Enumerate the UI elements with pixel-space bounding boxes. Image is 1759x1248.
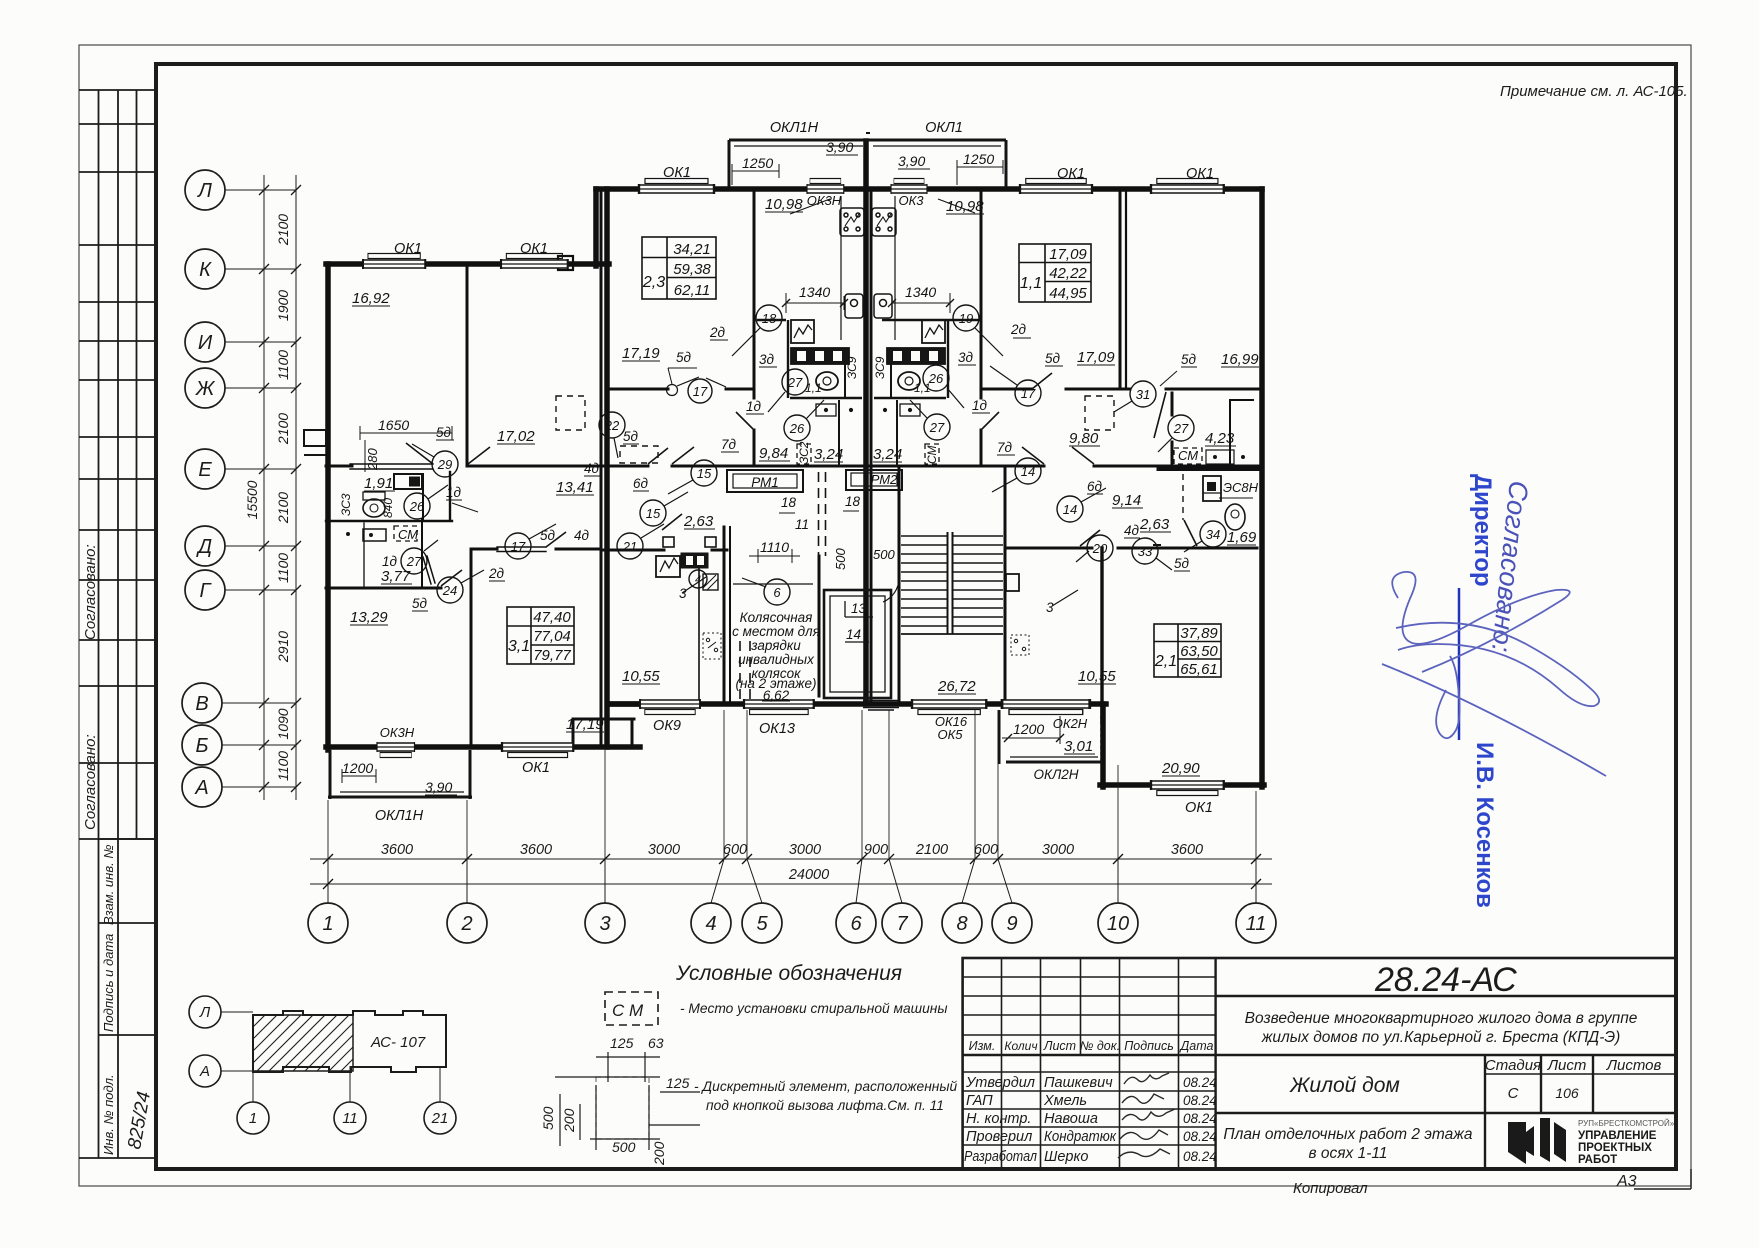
svg-text:24: 24: [442, 583, 457, 598]
svg-text:33: 33: [1138, 544, 1153, 559]
svg-text:21: 21: [622, 539, 637, 554]
svg-text:Копировал: Копировал: [1293, 1180, 1368, 1197]
svg-text:Согласовано:: Согласовано:: [82, 544, 99, 640]
svg-text:9,80: 9,80: [1069, 430, 1099, 447]
party wall center: [863, 141, 869, 704]
vestibule wall x819: [818, 556, 821, 696]
wall bottom left-section: [326, 744, 640, 750]
room area labels underlined: [350, 196, 1259, 777]
entrance dashed lines: [740, 472, 826, 702]
svg-text:ОК3Н: ОК3Н: [807, 193, 842, 208]
rotated small labels: [339, 356, 1259, 542]
left stamp sidebar table: [79, 90, 156, 1158]
svg-text:ОК1: ОК1: [522, 760, 550, 776]
svg-text:Взам. инв. №: Взам. инв. №: [101, 845, 116, 925]
svg-text:500: 500: [540, 1106, 556, 1130]
РМ1 box: [727, 470, 902, 492]
svg-text:А: А: [194, 777, 208, 799]
svg-text:3000: 3000: [648, 842, 680, 858]
left axis circles: [182, 170, 225, 807]
svg-text:840: 840: [381, 498, 395, 518]
svg-text:20: 20: [1092, 541, 1108, 556]
stairwell walls: [898, 466, 901, 704]
svg-text:Б: Б: [195, 735, 208, 757]
wall bottom right-section: [1100, 782, 1264, 788]
svg-text:Колясочная: Колясочная: [740, 610, 813, 625]
svg-text:СМ: СМ: [1178, 448, 1198, 463]
svg-text:42,22: 42,22: [1049, 265, 1087, 282]
svg-text:Н. контр.: Н. контр.: [966, 1111, 1031, 1127]
svg-text:6: 6: [773, 585, 781, 600]
svg-text:26: 26: [789, 421, 805, 436]
svg-text:47,40: 47,40: [533, 609, 571, 626]
svg-text:08.24: 08.24: [1183, 1129, 1217, 1144]
svg-text:зарядки: зарядки: [750, 638, 801, 653]
svg-text:инвалидных: инвалидных: [738, 652, 815, 667]
svg-text:Д: Д: [196, 536, 212, 558]
svg-text:Пашкевич: Пашкевич: [1044, 1075, 1113, 1091]
door leaves: [406, 373, 1197, 586]
svg-text:РМ1: РМ1: [751, 475, 779, 490]
svg-text:37,89: 37,89: [1180, 625, 1218, 642]
svg-text:Инв. № подл.: Инв. № подл.: [101, 1074, 116, 1155]
hall wall y550: [601, 549, 664, 552]
svg-text:Навоша: Навоша: [1044, 1111, 1098, 1127]
svg-text:И: И: [198, 332, 213, 354]
svg-text:РУП«БРЕСТКОМСТРОЙ»: РУП«БРЕСТКОМСТРОЙ»: [1578, 1119, 1675, 1128]
wall top middle: [596, 186, 1262, 192]
balcony bottom okl1n: [328, 750, 472, 799]
svg-text:ОК3: ОК3: [898, 193, 924, 208]
svg-text:2,1: 2,1: [1154, 653, 1177, 670]
svg-text:17,19: 17,19: [566, 716, 604, 733]
svg-text:Хмель: Хмель: [1043, 1093, 1087, 1109]
svg-text:ОК1: ОК1: [520, 241, 548, 257]
svg-text:ОК5: ОК5: [937, 727, 963, 742]
svg-text:Шерко: Шерко: [1044, 1149, 1088, 1165]
svg-text:2: 2: [460, 913, 472, 935]
svg-text:26: 26: [409, 499, 425, 514]
svg-text:3д: 3д: [759, 352, 775, 367]
svg-text:6д: 6д: [1087, 479, 1103, 494]
svg-text:500: 500: [833, 548, 848, 570]
svg-text:ЗС2: ЗС2: [797, 441, 811, 464]
svg-text:18: 18: [762, 311, 777, 326]
svg-text:6д: 6д: [633, 476, 649, 491]
left bath walls: [326, 520, 452, 522]
wall left of apt 2.1: [1100, 704, 1106, 787]
left axis leader lines + dim chain: [222, 175, 296, 800]
svg-text:ЗС3: ЗС3: [339, 493, 353, 516]
hall fixtures: washing machine, radiator block, hatched box: [656, 553, 813, 590]
svg-text:3,1: 3,1: [508, 638, 530, 655]
svg-text:РАБОТ: РАБОТ: [1578, 1154, 1617, 1166]
svg-text:- Дискретный элемент, располо: - Дискретный элемент, расположенный: [694, 1079, 958, 1094]
svg-text:19: 19: [959, 311, 973, 326]
svg-text:3: 3: [599, 913, 610, 935]
svg-text:5д: 5д: [1181, 352, 1197, 367]
svg-text:16,99: 16,99: [1221, 351, 1259, 368]
wall right outer: [1259, 189, 1265, 787]
svg-text:4,23: 4,23: [1205, 430, 1235, 447]
bottom axis circles: [308, 903, 1276, 943]
svg-text:Стадия: Стадия: [1485, 1057, 1541, 1074]
svg-text:14: 14: [846, 627, 861, 642]
svg-text:4д: 4д: [584, 461, 600, 476]
svg-text:Ж: Ж: [195, 378, 216, 400]
svg-text:77,04: 77,04: [533, 628, 571, 645]
left columns: [963, 958, 1216, 1169]
svg-text:3,24: 3,24: [814, 446, 843, 463]
stairs: [883, 532, 1003, 634]
bottom dim ticks: [323, 854, 1261, 889]
svg-text:26,72: 26,72: [937, 678, 976, 695]
svg-text:15500: 15500: [244, 480, 260, 519]
svg-text:34: 34: [1206, 527, 1220, 542]
sm room west wall x1172: [1171, 393, 1174, 415]
svg-text:3д: 3д: [958, 350, 974, 365]
svg-text:1100: 1100: [275, 350, 291, 380]
inner drawing frame: [156, 64, 1676, 1169]
koljasochnaja west wall (double): [723, 527, 726, 702]
svg-text:Дата: Дата: [1179, 1039, 1214, 1053]
svg-text:ОК1: ОК1: [1185, 800, 1213, 816]
svg-text:3: 3: [1046, 600, 1054, 615]
svg-text:3: 3: [679, 586, 687, 601]
svg-text:в осях 1-11: в осях 1-11: [1309, 1145, 1388, 1162]
svg-text:17,19: 17,19: [622, 345, 660, 362]
svg-text:15: 15: [646, 506, 661, 521]
svg-text:Жилой дом: Жилой дом: [1289, 1074, 1400, 1097]
svg-text:1,1: 1,1: [1020, 275, 1042, 292]
A3 corner line: [1634, 1188, 1691, 1190]
svg-text:2100: 2100: [915, 842, 948, 858]
svg-text:3,24: 3,24: [873, 446, 902, 463]
hatched part of mini building: [253, 1015, 353, 1071]
svg-text:3600: 3600: [381, 842, 413, 858]
svg-text:3,01: 3,01: [1064, 738, 1093, 755]
dim ticks left chain: [259, 185, 301, 792]
svg-text:9: 9: [1006, 913, 1017, 935]
svg-text:- Место установки стиральной: - Место установки стиральной машины: [680, 1001, 948, 1016]
svg-text:10,98: 10,98: [946, 198, 984, 215]
door labels: [382, 322, 1197, 642]
sm dashed boxes center: [797, 444, 939, 464]
right part: [1216, 996, 1676, 1169]
svg-text:А: А: [199, 1063, 210, 1080]
svg-text:600: 600: [974, 842, 998, 858]
svg-text:С: С: [1508, 1085, 1519, 1102]
svg-text:17,09: 17,09: [1049, 246, 1087, 263]
svg-text:1250: 1250: [742, 155, 773, 171]
logo: [1508, 1118, 1675, 1166]
svg-text:Л: Л: [196, 180, 212, 202]
lift shaft: [824, 590, 891, 698]
svg-text:2910: 2910: [275, 631, 291, 663]
mini building: [253, 1011, 446, 1072]
svg-text:08.24: 08.24: [1183, 1149, 1217, 1164]
G-axis wall y588: [326, 587, 441, 590]
interior walls: [326, 191, 1262, 747]
svg-text:8: 8: [956, 913, 967, 935]
kitchen wall right x981: [980, 191, 983, 398]
svg-text:№ док.: № док.: [1080, 1039, 1120, 1053]
svg-text:3600: 3600: [520, 842, 552, 858]
svg-text:44,95: 44,95: [1049, 285, 1087, 302]
svg-text:1200: 1200: [1013, 721, 1044, 737]
corridor verticals below bath: [838, 400, 840, 466]
kitchen stoves top: [840, 208, 896, 318]
svg-text:2100: 2100: [275, 413, 291, 445]
left dim texts (rotated): [244, 214, 291, 781]
svg-text:4д: 4д: [574, 528, 590, 543]
wall left outer: [325, 264, 331, 750]
svg-text:1: 1: [249, 1110, 257, 1127]
svg-text:ГАП: ГАП: [966, 1093, 993, 1109]
vent/els fixtures near stairs: [703, 574, 1029, 659]
svg-text:27: 27: [929, 420, 945, 435]
right section sm room fixtures: [1174, 448, 1253, 530]
svg-text:1100: 1100: [275, 553, 291, 583]
svg-text:2,3: 2,3: [642, 274, 665, 291]
svg-text:10,55: 10,55: [1078, 668, 1116, 685]
svg-text:11: 11: [342, 1110, 358, 1127]
svg-text:106: 106: [1555, 1085, 1579, 1101]
svg-text:125: 125: [666, 1075, 690, 1091]
underlines for door labels: [412, 338, 1197, 611]
svg-text:с местом для: с местом для: [732, 624, 820, 639]
svg-text:ОКЛ1Н: ОКЛ1Н: [375, 808, 424, 824]
svg-text:ОК1: ОК1: [394, 241, 422, 257]
wall top left-section: [326, 261, 609, 267]
svg-text:17,02: 17,02: [497, 428, 535, 445]
svg-text:79,77: 79,77: [533, 647, 571, 664]
svg-text:3000: 3000: [1042, 842, 1074, 858]
svg-text:17: 17: [511, 539, 526, 554]
svg-text:ОКЛ1Н: ОКЛ1Н: [770, 120, 819, 136]
svg-text:ОК2Н: ОК2Н: [1053, 716, 1088, 731]
svg-text:ОК3Н: ОК3Н: [380, 725, 415, 740]
svg-text:Листов: Листов: [1606, 1057, 1662, 1074]
svg-text:1090: 1090: [275, 708, 291, 739]
svg-text:9,84: 9,84: [759, 445, 788, 462]
window labels: [375, 120, 1214, 824]
bottom dim texts: [381, 842, 1203, 883]
svg-text:Возведение многоквартирного жи: Возведение многоквартирного жилого дома …: [1245, 1010, 1638, 1027]
wall between rooms 16,92/17,02: [466, 264, 469, 466]
door posts on hall wall: [663, 537, 716, 547]
signature scribbles in title block: [1118, 1073, 1175, 1158]
svg-text:65,61: 65,61: [1180, 661, 1218, 678]
svg-text:2100: 2100: [275, 214, 291, 246]
wall bottom middle: [609, 701, 1106, 707]
svg-text:СМ: СМ: [398, 527, 418, 542]
svg-text:15: 15: [697, 466, 712, 481]
svg-text:24000: 24000: [788, 867, 829, 883]
svg-text:08.24: 08.24: [1183, 1111, 1217, 1126]
exterior walls: [326, 141, 1264, 787]
niche in sm room: [1229, 400, 1231, 464]
svg-text:ОК1: ОК1: [1186, 166, 1214, 182]
underline 3,90 labels: [425, 155, 930, 795]
room 17,19 north wall y549: [471, 548, 497, 551]
evaluation circles with numbers: [401, 305, 1226, 605]
svg-text:Колич: Колич: [1004, 1039, 1037, 1053]
svg-text:2д: 2д: [1010, 322, 1027, 337]
svg-text:9,14: 9,14: [1112, 492, 1141, 509]
svg-text:21: 21: [431, 1110, 449, 1127]
svg-text:2,63: 2,63: [1139, 516, 1170, 533]
corridor wall E-axis y466: [326, 465, 352, 468]
svg-text:1,69: 1,69: [1227, 529, 1257, 546]
svg-text:29: 29: [437, 457, 452, 472]
svg-text:3,90: 3,90: [826, 139, 853, 155]
svg-text:К: К: [199, 259, 212, 281]
svg-text:5д: 5д: [676, 350, 692, 365]
bath walls y398: [790, 397, 862, 400]
vent duct notch on left wall: [304, 430, 326, 455]
svg-text:11: 11: [1246, 913, 1267, 935]
svg-text:ОК1: ОК1: [1057, 166, 1085, 182]
svg-text:27: 27: [406, 554, 422, 569]
svg-text:ОКЛ1: ОКЛ1: [925, 120, 963, 136]
svg-text:УПРАВЛЕНИЕ: УПРАВЛЕНИЕ: [1578, 1130, 1657, 1142]
svg-text:16,92: 16,92: [352, 290, 390, 307]
svg-text:500: 500: [612, 1139, 636, 1155]
svg-text:Разработал: Разработал: [964, 1149, 1037, 1165]
svg-text:ОКЛ2Н: ОКЛ2Н: [1034, 767, 1079, 782]
svg-text:34,21: 34,21: [673, 241, 711, 258]
svg-text:1,1: 1,1: [805, 381, 822, 395]
balcony bottom okl2n: [999, 710, 1102, 764]
svg-text:18: 18: [781, 495, 797, 510]
svg-text:200: 200: [561, 1108, 577, 1133]
svg-text:Подпись: Подпись: [1124, 1039, 1174, 1053]
bottom dim lines: [310, 859, 1272, 903]
svg-text:6: 6: [850, 913, 862, 935]
svg-text:18: 18: [845, 494, 861, 509]
thin duct wall x699: [698, 567, 700, 702]
svg-text:14: 14: [1021, 464, 1035, 479]
svg-text:13: 13: [851, 601, 867, 616]
windows bottom (sill below): [640, 699, 700, 715]
svg-text:ПРОЕКТНЫХ: ПРОЕКТНЫХ: [1578, 1142, 1652, 1154]
svg-text:1650: 1650: [378, 417, 409, 433]
svg-text:1д: 1д: [382, 554, 398, 569]
apt 2.3 inner wall y389: [608, 388, 668, 391]
svg-text:Изм.: Изм.: [969, 1039, 996, 1053]
svg-text:3,77: 3,77: [381, 568, 411, 585]
svg-text:22: 22: [604, 418, 620, 433]
svg-text:В: В: [195, 693, 208, 715]
svg-text:5д: 5д: [1174, 556, 1190, 571]
bathroom cluster left: [757, 320, 981, 466]
svg-text:Лист: Лист: [1043, 1039, 1076, 1053]
svg-text:20,90: 20,90: [1161, 760, 1200, 777]
svg-text:1200: 1200: [342, 760, 373, 776]
svg-text:ОК13: ОК13: [759, 721, 795, 737]
svg-text:5д: 5д: [623, 429, 639, 444]
apt2.1 left wall upper: [1100, 548, 1103, 721]
svg-text:1: 1: [322, 913, 333, 935]
svg-text:Согласовано:: Согласовано:: [82, 734, 99, 830]
svg-text:1д: 1д: [746, 399, 762, 414]
svg-text:Кондратюк: Кондратюк: [1044, 1129, 1117, 1145]
svg-text:5д: 5д: [412, 596, 428, 611]
svg-text:2100: 2100: [275, 492, 291, 524]
svg-text:СМ: СМ: [925, 445, 939, 464]
svg-text:125: 125: [610, 1035, 634, 1051]
svg-text:200: 200: [651, 1141, 667, 1166]
svg-text:под кнопкой вызова лифта.См. п: под кнопкой вызова лифта.См. п. 11: [706, 1098, 944, 1113]
svg-text:1900: 1900: [275, 290, 291, 321]
wall rooms 17,09/16,99 x1120: [1119, 191, 1122, 389]
svg-text:ЗС9: ЗС9: [873, 356, 887, 379]
axis stub lines from bottom dim to building: [328, 710, 1256, 859]
svg-text:7д: 7д: [997, 440, 1013, 455]
apartment tables: [507, 237, 1221, 677]
svg-text:17: 17: [693, 384, 708, 399]
svg-text:Подпись и дата: Подпись и дата: [101, 934, 116, 1032]
svg-text:62,11: 62,11: [674, 282, 710, 299]
svg-text:31: 31: [1136, 387, 1150, 402]
svg-text:4д: 4д: [1124, 523, 1140, 538]
svg-text:3600: 3600: [1171, 842, 1203, 858]
svg-text:АС- 107: АС- 107: [370, 1034, 426, 1051]
svg-text:280: 280: [365, 448, 380, 471]
dashed closets: [556, 396, 1183, 520]
svg-text:500: 500: [873, 547, 895, 562]
svg-text:Примечание см. л. АС-105.: Примечание см. л. АС-105.: [1500, 83, 1688, 100]
svg-text:1110: 1110: [760, 539, 789, 555]
svg-text:17,09: 17,09: [1077, 349, 1115, 366]
svg-text:1,1: 1,1: [914, 381, 931, 395]
svg-text:900: 900: [864, 842, 888, 858]
svg-text:5: 5: [756, 913, 768, 935]
svg-text:10: 10: [1107, 913, 1129, 935]
right sm room counter: [1159, 466, 1257, 471]
svg-text:Проверил: Проверил: [966, 1129, 1032, 1145]
room 17,19 west wall: [470, 549, 473, 747]
svg-text:ОК1: ОК1: [663, 165, 691, 181]
svg-text:3,90: 3,90: [898, 153, 925, 169]
svg-text:ЗС9: ЗС9: [845, 356, 859, 379]
kitchen counter lines: [841, 196, 895, 340]
vanities: [816, 404, 836, 416]
svg-text:08.24: 08.24: [1183, 1093, 1217, 1108]
svg-text:План отделочных работ 2 этажа: План отделочных работ 2 этажа: [1223, 1126, 1473, 1143]
window label slashes: [790, 199, 975, 214]
plan dimensions: [342, 160, 1064, 783]
svg-text:10,55: 10,55: [622, 668, 660, 685]
svg-text:Утвердил: Утвердил: [965, 1075, 1035, 1091]
wall y548 right section: [1005, 547, 1092, 550]
svg-text:РМ2: РМ2: [871, 472, 898, 487]
svg-text:2д: 2д: [709, 325, 726, 340]
svg-text:4: 4: [705, 913, 716, 935]
svg-text:63,50: 63,50: [1180, 643, 1218, 660]
svg-text:жилых домов по ул.Карьерной г: жилых домов по ул.Карьерной г. Бреста (К…: [1261, 1029, 1621, 1046]
svg-text:1д: 1д: [972, 398, 988, 413]
svg-text:10,98: 10,98: [765, 196, 803, 213]
svg-text:08.24: 08.24: [1183, 1075, 1217, 1090]
svg-text:3,90: 3,90: [425, 779, 452, 795]
wall section divider x607: [604, 189, 610, 747]
svg-text:63: 63: [648, 1035, 664, 1051]
svg-text:1340: 1340: [905, 284, 936, 300]
svg-text:27: 27: [787, 375, 803, 390]
legend small dim drawing: [555, 1052, 700, 1150]
